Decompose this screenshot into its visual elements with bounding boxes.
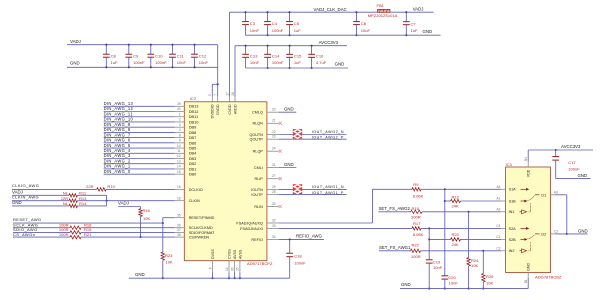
svg-text:C6: C6 xyxy=(361,21,367,26)
svg-text:100R: 100R xyxy=(411,215,421,220)
svg-text:5: 5 xyxy=(208,94,212,96)
capacitor C19 10nF xyxy=(426,260,443,289)
wire R9 to S1A xyxy=(421,188,501,190)
wire GND rail (top) xyxy=(246,34,441,36)
svg-text:23: 23 xyxy=(272,135,276,139)
svg-text:VDD: VDD xyxy=(527,169,531,177)
resistor R24 10K xyxy=(467,212,479,289)
wire GND bottom rail xyxy=(129,277,290,279)
wire R15 to IN1 xyxy=(422,211,501,213)
svg-text:C3: C3 xyxy=(250,21,256,26)
IC2 pin 28 IOUTP xyxy=(251,190,278,197)
svg-text:CVSS: CVSS xyxy=(228,249,232,259)
junction node2 xyxy=(428,227,430,229)
svg-text:CMLQ: CMLQ xyxy=(252,111,263,115)
svg-text:D2: D2 xyxy=(541,232,546,236)
svg-text:10nF: 10nF xyxy=(433,265,443,270)
IC2 pin 34 REFIO xyxy=(251,235,278,242)
svg-text:CLKIO_AWG: CLKIO_AWG xyxy=(12,183,39,188)
svg-text:SET_FS_AWG2: SET_FS_AWG2 xyxy=(379,206,411,211)
svg-text:IC2: IC2 xyxy=(190,96,197,101)
svg-text:100nF: 100nF xyxy=(133,60,145,65)
svg-text:DB8: DB8 xyxy=(189,130,197,135)
svg-text:10nF: 10nF xyxy=(199,60,209,65)
svg-text:AVDD: AVDD xyxy=(233,104,237,114)
wire node2 vertical xyxy=(428,228,430,259)
wire VADJ to R16 xyxy=(118,206,141,208)
svg-text:NL: NL xyxy=(63,201,69,206)
svg-text:C5: C5 xyxy=(294,21,300,26)
wire SET_FS_AWG1 to R22 xyxy=(379,250,411,252)
wire R12 to S1B xyxy=(461,200,502,202)
svg-text:GND: GND xyxy=(527,263,531,271)
svg-text:100R: 100R xyxy=(59,232,69,237)
svg-text:100nF: 100nF xyxy=(568,167,580,172)
svg-text:22R: 22R xyxy=(61,196,69,201)
wire branch to DVDDIO pin 5 xyxy=(212,83,217,85)
wire FB1 to VADJ xyxy=(390,11,434,13)
node DIN_AWG_8 label and wire to pin 4 xyxy=(104,127,197,135)
svg-text:25: 25 xyxy=(236,267,240,271)
svg-text:15: 15 xyxy=(177,170,181,174)
resistor R16 10K xyxy=(139,207,151,238)
capacitor C18 100nF xyxy=(286,239,306,278)
svg-text:DVDD: DVDD xyxy=(216,104,220,115)
svg-text:10K: 10K xyxy=(486,281,494,286)
svg-text:QOUTP: QOUTP xyxy=(250,138,264,142)
svg-text:20: 20 xyxy=(272,108,276,112)
IC3 pin A2 IN1 xyxy=(496,208,514,215)
dac IC2 AD9717BCPZ body xyxy=(184,96,273,266)
svg-text:1uF: 1uF xyxy=(294,60,302,65)
svg-text:FSADJI/AUXI: FSADJI/AUXI xyxy=(240,227,263,231)
capacitor C5 1uF xyxy=(286,11,301,36)
svg-text:35: 35 xyxy=(177,213,181,217)
resistor R15 100R xyxy=(411,206,423,220)
svg-text:19: 19 xyxy=(225,267,229,271)
svg-text:C11: C11 xyxy=(177,54,185,59)
svg-text:B1: B1 xyxy=(524,279,528,283)
flag IOUT_AWG1_P xyxy=(292,189,302,195)
wire IOUTN to IOUT_AWG1_N xyxy=(279,189,347,191)
IC2 pin 31 CMLI xyxy=(254,163,279,170)
svg-text:38: 38 xyxy=(177,233,181,237)
svg-text:REFIO_AWG: REFIO_AWG xyxy=(296,234,323,239)
svg-text:8.06K: 8.06K xyxy=(413,193,424,198)
wire AVCC3V3 rail (right) xyxy=(528,149,593,151)
svg-text:CS/PWRDN: CS/PWRDN xyxy=(189,236,210,240)
svg-text:VADJ: VADJ xyxy=(12,189,23,194)
wire R21 to IC2 xyxy=(81,236,175,238)
svg-text:R17: R17 xyxy=(413,221,421,226)
svg-text:30: 30 xyxy=(230,267,234,271)
svg-text:DIN_AWG_13: DIN_AWG_13 xyxy=(104,101,134,106)
svg-text:R25: R25 xyxy=(486,274,494,279)
svg-text:40: 40 xyxy=(177,107,181,111)
IC2 pin 17 CVDD xyxy=(225,92,231,115)
svg-text:RLQN: RLQN xyxy=(252,122,263,126)
svg-text:S2B: S2B xyxy=(509,238,517,242)
wire rail to IC2 CVDD pin 17 xyxy=(229,12,231,96)
svg-text:DB2: DB2 xyxy=(189,161,197,166)
node DIN_AWG_0 label and wire to pin 15 xyxy=(104,169,198,177)
wire D2 to GND xyxy=(555,233,588,235)
svg-text:100nF: 100nF xyxy=(272,60,284,65)
svg-text:GND: GND xyxy=(578,228,588,233)
wire R13 to pin18 xyxy=(77,200,174,202)
svg-text:QOUTN: QOUTN xyxy=(249,133,263,137)
svg-text:DIN_AWG_12: DIN_AWG_12 xyxy=(104,106,134,111)
switch S1 internals xyxy=(520,188,540,214)
svg-text:10: 10 xyxy=(177,144,181,148)
svg-text:100nF: 100nF xyxy=(294,260,306,265)
svg-text:10nF: 10nF xyxy=(177,60,187,65)
svg-text:R11: R11 xyxy=(79,190,87,195)
svg-text:24K: 24K xyxy=(452,204,460,209)
IC2 pin 32 FSADJQ/AUXQ xyxy=(236,218,278,225)
svg-text:DB4: DB4 xyxy=(189,151,197,156)
svg-text:C16: C16 xyxy=(316,54,324,59)
junction R24 GND xyxy=(468,288,470,290)
svg-text:3: 3 xyxy=(179,123,181,127)
node DIN_AWG_6 label and wire to pin 9 xyxy=(104,138,197,146)
IC2 pin 25 AVSS xyxy=(236,249,243,279)
node DIN_AWG_1 label and wire to pin 14 xyxy=(104,164,197,172)
svg-text:27: 27 xyxy=(272,174,276,178)
svg-text:100nF: 100nF xyxy=(272,28,284,33)
junction IN2 R25 xyxy=(482,250,484,252)
svg-text:GND: GND xyxy=(135,272,145,277)
svg-text:IOUTP: IOUTP xyxy=(251,193,263,197)
svg-text:IOUT_AWG2_P: IOUT_AWG2_P xyxy=(312,135,344,139)
svg-text:RLQP: RLQP xyxy=(253,150,264,154)
svg-text:DB7: DB7 xyxy=(189,135,197,140)
svg-text:39: 39 xyxy=(177,102,181,106)
no-connect pin 27 RLIP xyxy=(279,177,282,180)
svg-text:10K: 10K xyxy=(166,260,174,265)
junction REFIO xyxy=(289,238,291,240)
resistor R11 NL xyxy=(63,190,87,197)
wire R19 to IC2 xyxy=(81,231,175,233)
svg-text:AVSS: AVSS xyxy=(233,249,237,259)
svg-text:24K: 24K xyxy=(452,242,460,247)
capacitor C20 10nF xyxy=(441,275,458,289)
svg-text:R9: R9 xyxy=(413,182,419,187)
svg-text:RESET_AWG: RESET_AWG xyxy=(13,217,42,222)
resistor R19 100R xyxy=(59,227,92,234)
svg-text:DIN_AWG_7: DIN_AWG_7 xyxy=(104,132,131,137)
capacitor C8 1uF xyxy=(103,44,118,69)
svg-text:MPZ2012S101A: MPZ2012S101A xyxy=(368,13,398,18)
svg-text:S2A: S2A xyxy=(509,227,517,231)
wire GND rail to IC3 GND pin xyxy=(527,278,529,289)
svg-text:DIN_AWG_9: DIN_AWG_9 xyxy=(104,122,131,127)
svg-text:C10: C10 xyxy=(155,54,163,59)
resistor R10 22R xyxy=(86,184,116,191)
svg-text:9: 9 xyxy=(179,139,181,143)
capacitor C15 1uF xyxy=(286,45,302,69)
svg-text:29: 29 xyxy=(272,185,276,189)
svg-text:DIN_AWG_1: DIN_AWG_1 xyxy=(104,164,131,169)
IC2 pin 29 IOUTN xyxy=(251,185,278,192)
wire VADJ to IC2 DVDD pins xyxy=(217,45,219,97)
svg-text:DB12: DB12 xyxy=(189,109,199,114)
resistor R13 22R xyxy=(61,196,88,203)
svg-text:CMLI: CMLI xyxy=(254,166,263,170)
svg-text:GND: GND xyxy=(12,200,22,205)
IC2 pin 33 FSADJI/AUXI xyxy=(240,224,279,231)
svg-text:C14: C14 xyxy=(272,54,280,59)
wire D1 to GND join xyxy=(555,194,567,196)
wire R11 to node xyxy=(77,194,106,196)
svg-text:R16: R16 xyxy=(143,208,151,213)
svg-text:R10: R10 xyxy=(107,184,115,189)
IC2 pin 5 DVDDIO xyxy=(208,94,214,119)
svg-text:R20: R20 xyxy=(452,232,460,237)
wire CLKIO_AWG to R10 xyxy=(12,188,97,190)
svg-text:DIN_AWG_5: DIN_AWG_5 xyxy=(104,143,131,148)
svg-text:10nF: 10nF xyxy=(449,280,459,285)
capacitor C4 100nF xyxy=(264,11,284,36)
node DIN_AWG_9 label and wire to pin 3 xyxy=(104,122,197,130)
svg-text:B4: B4 xyxy=(524,157,528,161)
svg-text:DB5: DB5 xyxy=(189,145,197,150)
capacitor C9 100nF xyxy=(125,44,145,69)
svg-text:C19: C19 xyxy=(433,260,441,265)
wire QOUTN to IOUT_AWG2_N xyxy=(279,134,347,136)
junction node CLKIN xyxy=(106,200,108,202)
wire VDD to AVCC3V3 xyxy=(527,150,529,162)
svg-text:AVCC3V3: AVCC3V3 xyxy=(319,40,339,45)
svg-text:VADJ: VADJ xyxy=(118,200,129,205)
flag IOUT_AWG1_N xyxy=(292,184,302,190)
svg-text:DIN_AWG_2: DIN_AWG_2 xyxy=(104,158,131,163)
svg-text:DIN_AWG_10: DIN_AWG_10 xyxy=(104,117,134,122)
IC2 pin 37 SDIO/FORMAT xyxy=(175,228,216,235)
wire R14 to node xyxy=(77,205,106,207)
wire R20 to S2B xyxy=(461,238,502,240)
svg-text:31: 31 xyxy=(272,163,276,167)
svg-text:4.7uF: 4.7uF xyxy=(316,60,327,65)
svg-text:RLIN: RLIN xyxy=(254,205,263,209)
node DIN_AWG_11 label and wire to pin 1 xyxy=(104,111,199,119)
resistor R23 10K xyxy=(161,223,173,278)
IC2 pin 18 CLKIN xyxy=(175,196,201,203)
svg-text:DB10: DB10 xyxy=(189,119,200,124)
capacitor C12 10nF xyxy=(191,44,208,69)
IC3 pin A3 D1 xyxy=(541,190,558,197)
wire IOUTP to IOUT_AWG1_P xyxy=(279,194,347,196)
svg-text:DIN_AWG_0: DIN_AWG_0 xyxy=(104,169,131,174)
wire AVCC3V3 rail xyxy=(235,45,347,47)
svg-text:C17: C17 xyxy=(568,160,576,165)
svg-text:SCLK/CLKMD: SCLK/CLKMD xyxy=(189,226,213,230)
junction R23 to GND rail xyxy=(162,277,164,279)
capacitor C3 10nF xyxy=(242,11,259,35)
svg-text:22: 22 xyxy=(272,130,276,134)
svg-text:12: 12 xyxy=(177,154,181,158)
wire SDIO_AWG to R19 xyxy=(13,231,70,233)
junction node1 R12 xyxy=(444,200,446,202)
capacitor C16 4.7uF xyxy=(308,45,327,69)
svg-text:DIN_AWG_3: DIN_AWG_3 xyxy=(104,153,131,158)
capacitor C13 10nF xyxy=(242,45,259,68)
IC2 pin 26 AVDD xyxy=(231,92,237,114)
wire QOUTP to IOUT_AWG2_P xyxy=(279,138,347,140)
svg-text:C15: C15 xyxy=(294,54,302,59)
svg-text:10K: 10K xyxy=(143,216,151,221)
svg-text:DIN_AWG_8: DIN_AWG_8 xyxy=(104,127,131,132)
IC2 pin 24 RLQP xyxy=(253,147,279,154)
wire CLKIN_AWG to R13 xyxy=(12,200,69,202)
svg-text:C7: C7 xyxy=(411,21,417,26)
wire pin31 CMLI to GND xyxy=(279,167,297,169)
svg-text:A1: A1 xyxy=(496,197,500,201)
wire SET_FS_AWG2 to R15 xyxy=(379,211,411,213)
svg-text:IOUT_AWG2_N: IOUT_AWG2_N xyxy=(312,130,344,134)
capacitor C11 10nF xyxy=(169,44,186,69)
node DIN_AWG_2 label and wire to pin 13 xyxy=(104,158,197,166)
svg-text:R13: R13 xyxy=(79,196,87,201)
svg-text:ADG787BCBZ: ADG787BCBZ xyxy=(535,274,562,279)
capacitor C17 100nF xyxy=(552,150,580,179)
flag IOUT_AWG2_N xyxy=(292,129,302,135)
svg-text:11: 11 xyxy=(177,149,181,153)
junction IN1 R24 xyxy=(468,211,470,213)
svg-text:8: 8 xyxy=(179,133,181,137)
IC2 pin 23 QOUTP xyxy=(250,135,279,142)
node DIN_AWG_7 label and wire to pin 8 xyxy=(104,132,197,140)
svg-text:GND: GND xyxy=(284,107,294,112)
svg-text:36: 36 xyxy=(177,223,181,227)
svg-text:24: 24 xyxy=(272,147,276,151)
svg-text:10K: 10K xyxy=(471,263,479,268)
svg-text:IOUT_AWG1_N: IOUT_AWG1_N xyxy=(312,185,344,189)
junction C17 xyxy=(555,149,557,151)
wire pin20 CMLQ to GND xyxy=(279,111,297,113)
svg-text:28: 28 xyxy=(272,190,276,194)
svg-text:FB1: FB1 xyxy=(377,3,385,8)
IC2 pin 21 RLQN xyxy=(252,119,278,126)
analog switch IC3 ADG787BCBZ body xyxy=(506,162,562,280)
wire rail to IC2 AVDD pin 26 xyxy=(234,46,236,97)
svg-text:10uF: 10uF xyxy=(361,28,371,33)
svg-text:GND: GND xyxy=(423,29,433,34)
svg-text:1uF: 1uF xyxy=(411,28,419,33)
junction node1 xyxy=(444,188,446,190)
svg-text:IN2: IN2 xyxy=(509,249,515,253)
svg-text:R21: R21 xyxy=(84,232,92,237)
capacitor C10 100nF xyxy=(147,44,167,69)
resistor R12 24K xyxy=(451,194,461,208)
wire FSADJQ pin32 riser xyxy=(279,222,373,224)
no-connect pin 30 RLIN xyxy=(279,205,282,208)
resistor R14 NL xyxy=(63,201,87,208)
capacitor C14 100nF xyxy=(264,45,284,69)
svg-text:18: 18 xyxy=(177,196,181,200)
svg-text:8.06K: 8.06K xyxy=(413,232,424,237)
svg-text:7: 7 xyxy=(214,94,218,96)
capacitor C7 1uF xyxy=(403,11,418,36)
junction R25 GND xyxy=(482,288,484,290)
wire node1 to R12 xyxy=(445,200,451,202)
junction RESET xyxy=(162,222,164,224)
IC3 pin C4 S2A xyxy=(496,224,516,231)
svg-text:GND: GND xyxy=(335,61,345,66)
resistor R21 100R xyxy=(59,232,92,239)
wire GND to R14 xyxy=(12,205,69,207)
svg-text:DVSS: DVSS xyxy=(211,249,215,259)
svg-text:REFIO: REFIO xyxy=(251,238,263,242)
flag IOUT_AWG2_P xyxy=(292,133,302,139)
svg-text:VADJ: VADJ xyxy=(70,39,81,44)
svg-text:C13: C13 xyxy=(250,54,258,59)
wire node1 vertical xyxy=(444,189,446,275)
wire GND rail xyxy=(67,66,218,68)
IC2 pin 7 DVDD xyxy=(214,94,220,115)
svg-text:R15: R15 xyxy=(412,206,420,211)
node DIN_AWG_3 label and wire to pin 12 xyxy=(104,153,197,161)
wire R17 to S2A xyxy=(421,227,501,229)
svg-text:DB3: DB3 xyxy=(189,156,197,161)
svg-text:GND: GND xyxy=(401,282,411,287)
svg-text:DIN_AWG_11: DIN_AWG_11 xyxy=(104,111,134,116)
svg-text:AD9717BCPZ: AD9717BCPZ xyxy=(247,261,273,266)
svg-text:C12: C12 xyxy=(199,54,207,59)
svg-text:21: 21 xyxy=(272,119,276,123)
svg-text:DB11: DB11 xyxy=(189,114,198,119)
svg-text:VADJ: VADJ xyxy=(413,6,424,11)
wire node vertical xyxy=(106,195,108,206)
junction R16 to CS row xyxy=(139,236,141,238)
wire VADJ rail xyxy=(67,44,218,46)
svg-text:C4: C4 xyxy=(496,224,500,228)
svg-text:CS_AWGn: CS_AWGn xyxy=(13,232,35,237)
svg-text:CLKIN: CLKIN xyxy=(189,199,200,203)
ferrite bead FB1 MPZ2012S101A xyxy=(368,3,398,18)
svg-text:R14: R14 xyxy=(79,201,87,206)
svg-text:6: 6 xyxy=(208,267,212,269)
svg-text:C18: C18 xyxy=(294,253,302,258)
svg-text:DVDDIO: DVDDIO xyxy=(211,104,215,118)
svg-text:1uF: 1uF xyxy=(294,28,302,33)
no-connect pin 24 RLQP xyxy=(279,150,282,153)
svg-text:RLIP: RLIP xyxy=(255,177,264,181)
wire GND rail (avcc block) xyxy=(246,67,348,69)
svg-text:16: 16 xyxy=(177,185,181,189)
svg-text:SDIO/FORMAT: SDIO/FORMAT xyxy=(189,231,215,235)
svg-text:10nF: 10nF xyxy=(250,60,260,65)
IC2 pin 38 CS/PWRDN xyxy=(175,233,210,240)
svg-text:CLKIN_AWG: CLKIN_AWG xyxy=(12,195,39,200)
resistor R17 8.06K xyxy=(412,221,424,237)
IC3 pin A4 S1A xyxy=(496,185,516,192)
svg-text:R12: R12 xyxy=(452,194,460,199)
svg-text:C8: C8 xyxy=(111,54,117,59)
wire R18 to IC2 xyxy=(81,227,175,229)
wire GND right rail xyxy=(400,288,528,290)
IC2 pin 20 CMLQ xyxy=(252,108,279,115)
svg-text:CVDD: CVDD xyxy=(228,104,232,115)
svg-text:100R: 100R xyxy=(411,254,421,259)
svg-text:DB13: DB13 xyxy=(189,104,199,109)
svg-text:NL: NL xyxy=(63,190,69,195)
wire VADJ to R11 xyxy=(12,194,69,196)
IC3 pin C2 IN2 xyxy=(496,247,514,254)
IC2 pin 27 RLIP xyxy=(255,174,279,181)
svg-text:100nF: 100nF xyxy=(155,60,167,65)
svg-text:AVCC3V3: AVCC3V3 xyxy=(561,144,581,149)
